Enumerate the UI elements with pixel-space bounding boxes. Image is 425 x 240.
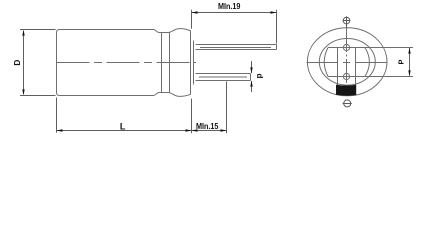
svg-text:L: L: [120, 122, 126, 132]
svg-text:d: d: [255, 74, 264, 79]
svg-text:D: D: [12, 60, 22, 66]
svg-text:MIn.19: MIn.19: [218, 2, 241, 11]
svg-text:P: P: [396, 59, 405, 64]
svg-text:MIn.15: MIn.15: [196, 122, 219, 131]
